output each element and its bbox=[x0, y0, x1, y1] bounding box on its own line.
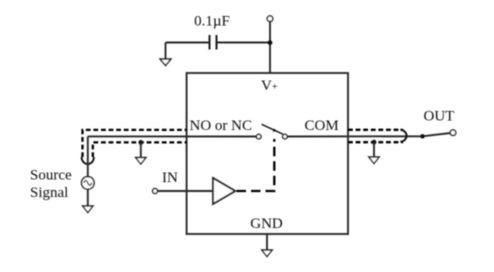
svg-text:COM: COM bbox=[305, 118, 339, 134]
svg-text:Source: Source bbox=[30, 168, 72, 184]
svg-text:0.1µF: 0.1µF bbox=[194, 14, 230, 30]
svg-text:Signal: Signal bbox=[30, 185, 68, 201]
svg-text:OUT: OUT bbox=[424, 109, 455, 125]
svg-text:V+: V+ bbox=[261, 78, 278, 94]
svg-text:NO or NC: NO or NC bbox=[190, 118, 253, 134]
svg-text:GND: GND bbox=[250, 216, 283, 232]
svg-text:IN: IN bbox=[162, 170, 178, 186]
